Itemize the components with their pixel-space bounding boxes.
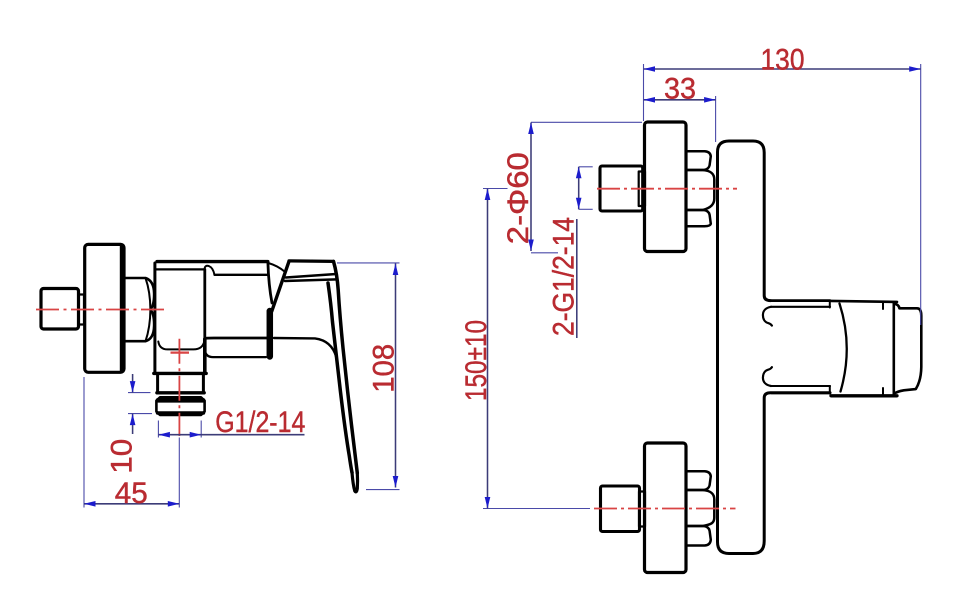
- body right edge: [268, 263, 272, 304]
- body left edge: [153, 263, 156, 373]
- outlet neck left: [156, 375, 159, 391]
- cartridge joint tick top: [829, 301, 831, 308]
- shelf top inner line: [771, 306, 830, 308]
- arrow G1/2 left: [158, 432, 170, 438]
- dim G12 ext bottom: [579, 208, 593, 210]
- lever tip: [352, 473, 358, 492]
- aerator ring outer: [156, 397, 204, 415]
- right view dimensions: [483, 64, 921, 509]
- svg-text:33: 33: [664, 72, 696, 105]
- handle joint thick bar: [267, 311, 274, 357]
- dim G12 ext top: [579, 166, 593, 168]
- body inner hook: [205, 266, 215, 275]
- lower hex nut top facet: [686, 471, 711, 490]
- lever collar line 1: [286, 274, 336, 278]
- right view red centerlines: [594, 189, 737, 509]
- dim G1/2-14 extension right: [200, 421, 202, 438]
- svg-text:2-Φ60: 2-Φ60: [502, 152, 535, 244]
- arrow G12 top: [576, 167, 582, 179]
- cartridge sleeve arc: [840, 304, 847, 392]
- dim phi60 ext bottom: [531, 252, 558, 254]
- cartridge seam tick bottom: [882, 388, 884, 396]
- upper union square: [600, 166, 643, 211]
- wall flange: [85, 244, 124, 372]
- lever outer edge: [334, 261, 358, 473]
- upper union centerline: [597, 188, 737, 190]
- svg-text:108: 108: [368, 344, 401, 393]
- arrow 10 bottom: [130, 414, 136, 426]
- handle dome curve: [268, 263, 285, 272]
- right view dim texts: [460, 43, 805, 401]
- wall plate: [718, 141, 771, 554]
- shelf bottom inner line: [771, 385, 830, 387]
- outlet neck right: [202, 375, 205, 391]
- lower hex nut middle facet: [686, 490, 714, 526]
- left view arrowheads: [84, 264, 398, 507]
- end cap inner line: [892, 304, 895, 394]
- outlet boss bottom: [154, 372, 206, 375]
- body inner top line left: [156, 268, 205, 270]
- arrow 108 bottom: [393, 476, 399, 488]
- dim phi60 line: [530, 123, 532, 252]
- dim G1/2-14 line + leader: [158, 434, 304, 436]
- centerline cross tick: [171, 352, 190, 354]
- body bottom outer edge: [205, 337, 267, 340]
- arrow G12 bottom: [576, 198, 582, 210]
- left view dim texts: [105, 344, 400, 510]
- dim 10 extension bottom: [128, 413, 152, 415]
- aerator ring bottom band: [158, 411, 204, 414]
- end cap outline: [894, 304, 922, 394]
- arrow 33 left: [644, 97, 656, 103]
- hex nut facet arc: [146, 278, 151, 341]
- arrow 108 top: [393, 264, 399, 276]
- union nut (left view inlet): [41, 289, 79, 330]
- dim phi60 ext top: [531, 121, 642, 123]
- dim 33 ext right: [715, 96, 717, 142]
- dim 10 extension top: [128, 392, 151, 394]
- right view arrowheads: [485, 66, 921, 508]
- vertical centerline outlet axis: [178, 339, 180, 436]
- wall flange thick right edge: [120, 246, 125, 371]
- dim 10 line bottom: [132, 414, 134, 434]
- shelf top outer edge: [772, 299, 831, 302]
- dim 150 ext top: [483, 188, 508, 190]
- left view dimensions: [84, 263, 400, 508]
- dim 150 line: [487, 189, 489, 509]
- body bottom edge behind handle: [274, 338, 338, 366]
- arrow 33 right: [704, 97, 716, 103]
- dim 33 line: [644, 99, 716, 101]
- cartridge divider / boss right edge: [203, 269, 206, 373]
- svg-text:G1/2-14: G1/2-14: [215, 406, 305, 439]
- dim 45 extension left: [83, 377, 85, 508]
- body top edge: [157, 260, 268, 263]
- cartridge joint tick bottom: [829, 386, 831, 394]
- svg-text:130: 130: [761, 43, 805, 76]
- lower union centerline: [594, 508, 736, 510]
- lever inner edge: [328, 283, 352, 473]
- arrow 130 right: [909, 66, 921, 72]
- dim 130 ext right: [920, 64, 922, 325]
- upper flange: [645, 122, 687, 252]
- upper hex nut top facet: [686, 151, 711, 170]
- upper hex nut bottom facet: [686, 210, 711, 226]
- lower union step: [639, 492, 645, 527]
- body bottom line 2: [205, 350, 266, 357]
- dim G1/2-14 extension left: [157, 421, 159, 438]
- arrow G1/2 right: [190, 432, 202, 438]
- dim 108 extension top: [337, 262, 400, 264]
- svg-text:2-G1/2-14: 2-G1/2-14: [548, 217, 581, 336]
- aerator ring top band: [158, 398, 203, 403]
- cartridge top edge: [831, 301, 897, 302]
- shelf bottom outer edge: [772, 391, 831, 394]
- dim 150 ext bottom: [483, 508, 590, 510]
- union step: [79, 295, 84, 325]
- inner seat line: [158, 341, 204, 350]
- label G12 underline: [576, 219, 578, 338]
- arrow 45 left: [84, 501, 96, 507]
- dim 45 line: [84, 503, 179, 505]
- dim G12 line: [578, 167, 580, 210]
- arrow 150 top: [485, 189, 491, 201]
- lever left diagonal: [272, 261, 289, 311]
- arrow 10 top: [130, 381, 136, 393]
- lower hex nut bottom facet: [686, 526, 711, 546]
- arrow 150 bottom: [485, 497, 491, 509]
- outlet thread shoulder: [157, 391, 204, 394]
- boss right edge thick part: [203, 339, 207, 373]
- arrow 45 right: [168, 501, 180, 507]
- lower union square: [601, 486, 640, 532]
- svg-text:45: 45: [115, 477, 148, 510]
- lever collar line 2: [285, 279, 337, 281]
- dim 10 line top: [132, 374, 134, 393]
- arrow phi60 bottom: [528, 240, 534, 252]
- svg-text:150±10: 150±10: [460, 320, 493, 401]
- body inner top line right: [215, 274, 268, 276]
- cartridge seam tick top: [882, 302, 884, 310]
- svg-text:10: 10: [105, 439, 138, 474]
- upper hex nut middle facet: [686, 170, 714, 210]
- left view red centerlines: [36, 310, 189, 437]
- hex nut (left view): [125, 278, 154, 341]
- lever top edge: [289, 259, 334, 263]
- dim 45 extension right: [178, 438, 180, 508]
- flare top leaf fillet: [763, 307, 772, 326]
- dim 130 line: [644, 68, 921, 70]
- dim 130 ext left: [643, 64, 645, 121]
- dim 108 line: [395, 264, 397, 488]
- cartridge bottom edge: [831, 394, 897, 397]
- arrow phi60 top: [528, 123, 534, 135]
- lower flange: [645, 443, 687, 573]
- arrow 130 left: [644, 66, 656, 72]
- flare bottom leaf fillet: [763, 367, 772, 386]
- dim 108 extension bottom: [366, 489, 400, 491]
- horizontal centerline inlet axis: [36, 309, 166, 311]
- upper union step: [639, 172, 645, 207]
